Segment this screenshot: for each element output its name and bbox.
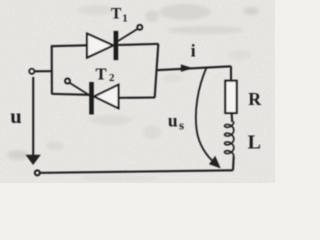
svg-text:T: T xyxy=(96,65,107,84)
svg-text:L: L xyxy=(248,132,261,154)
svg-text:2: 2 xyxy=(109,72,115,84)
svg-text:u: u xyxy=(168,110,178,130)
svg-text:T: T xyxy=(111,6,122,23)
svg-text:1: 1 xyxy=(122,13,127,24)
svg-text:R: R xyxy=(248,89,261,109)
svg-text:s: s xyxy=(179,117,184,132)
svg-text:u: u xyxy=(10,106,21,128)
svg-text:i: i xyxy=(191,41,196,61)
